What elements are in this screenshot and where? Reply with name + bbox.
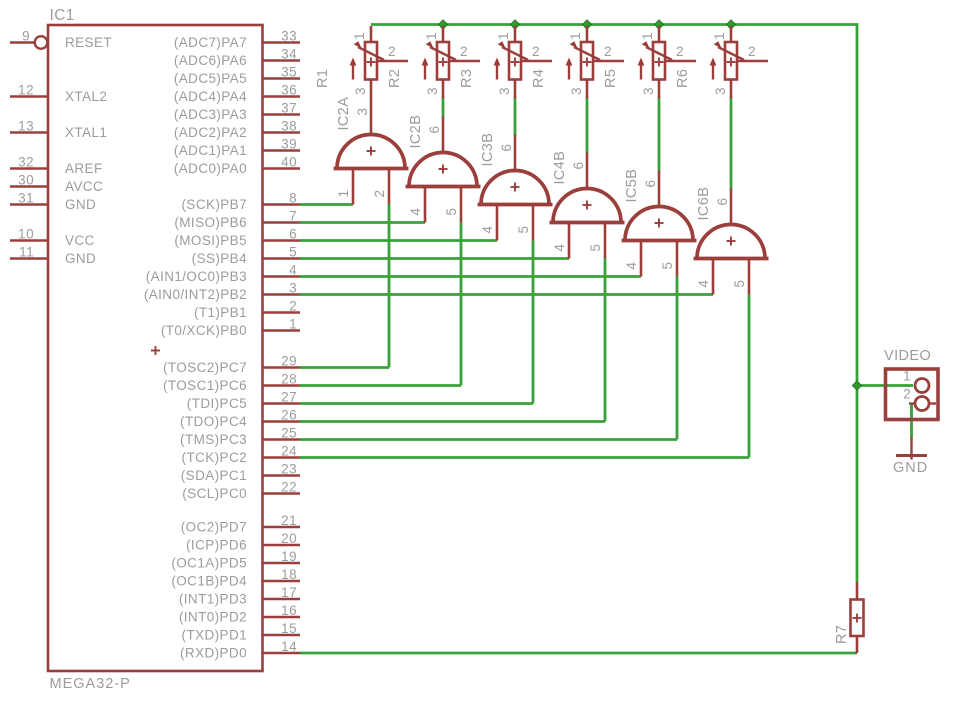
svg-text:5: 5	[289, 245, 297, 260]
IC1 pin 14 (RXD)PD0	[180, 639, 300, 661]
svg-text:(TDO)PC4: (TDO)PC4	[180, 414, 247, 429]
potentiometer R6	[675, 26, 768, 99]
IC1 pin 9 RESET	[10, 29, 112, 51]
svg-text:4: 4	[552, 244, 567, 252]
resistor R7	[834, 582, 864, 653]
svg-text:6: 6	[289, 227, 297, 242]
wire PB5 net	[300, 239, 497, 242]
wire R3 pin3 to IC gate output	[514, 98, 517, 136]
svg-text:(OC2)PD7: (OC2)PD7	[181, 520, 247, 535]
svg-text:AREF: AREF	[65, 161, 103, 176]
svg-text:2: 2	[676, 44, 684, 59]
svg-text:36: 36	[281, 83, 297, 98]
IC1 pin 35 (ADC5)PA5	[174, 65, 300, 87]
IC1 pin 6 (MOSI)PB5	[174, 227, 300, 249]
IC1 pin 26 (TDO)PC4	[180, 408, 300, 430]
wire right bus vertical	[856, 25, 859, 386]
IC1 pin 20 (ICP)PD6	[186, 531, 300, 553]
IC1 pin 37 (ADC3)PA3	[174, 101, 300, 123]
svg-text:35: 35	[281, 65, 297, 80]
IC1 pin 23 (SDA)PC1	[181, 462, 300, 484]
svg-text:3: 3	[425, 87, 440, 95]
svg-text:6: 6	[499, 144, 514, 152]
IC1 pin 3 (AIN0/INT2)PB2	[144, 281, 300, 303]
svg-text:3: 3	[353, 87, 368, 95]
svg-text:R4: R4	[531, 69, 547, 88]
potentiometer R4	[531, 26, 624, 99]
svg-text:5: 5	[660, 262, 675, 270]
svg-text:IC3B: IC3B	[480, 133, 496, 167]
svg-text:6: 6	[643, 180, 658, 188]
IC IC1 MEGA32-P body	[48, 7, 263, 692]
svg-text:(ICP)PD6: (ICP)PD6	[186, 538, 247, 553]
svg-text:(TXD)PD1: (TXD)PD1	[182, 628, 247, 643]
wire R6 pin3 to IC gate output	[730, 98, 733, 190]
svg-text:R3: R3	[459, 69, 475, 88]
IC1 pin 17 (INT1)PD3	[179, 585, 300, 607]
svg-text:GND: GND	[65, 197, 96, 212]
svg-text:AVCC: AVCC	[65, 179, 103, 194]
IC1 pin 34 (ADC6)PA6	[174, 47, 300, 69]
svg-text:17: 17	[281, 585, 297, 600]
wire top bus	[371, 23, 858, 26]
svg-text:3: 3	[497, 87, 512, 95]
svg-text:2: 2	[532, 44, 540, 59]
IC1 pin 15 (TXD)PD1	[182, 621, 300, 643]
svg-text:40: 40	[281, 155, 297, 170]
svg-text:(TDI)PC5: (TDI)PC5	[187, 396, 247, 411]
svg-text:12: 12	[18, 83, 34, 98]
svg-text:19: 19	[281, 549, 297, 564]
svg-text:(TOSC2)PC7: (TOSC2)PC7	[163, 360, 247, 375]
AND gate IC3B	[478, 133, 553, 241]
wire PB4 net	[300, 257, 569, 260]
svg-text:2: 2	[388, 44, 396, 59]
svg-text:1: 1	[568, 32, 583, 40]
svg-text:3: 3	[289, 281, 297, 296]
svg-text:27: 27	[281, 390, 297, 405]
wire PC7 net	[300, 205, 389, 368]
svg-text:5: 5	[444, 208, 459, 216]
svg-text:(ADC7)PA7: (ADC7)PA7	[174, 35, 247, 50]
potentiometer R5	[603, 26, 696, 99]
wire bus to VIDEO pin 1	[857, 384, 913, 387]
svg-text:5: 5	[732, 280, 747, 288]
IC1 pin 2 (T1)PB1	[194, 299, 300, 321]
svg-text:11: 11	[19, 245, 34, 260]
svg-text:R5: R5	[603, 69, 619, 88]
IC1 pin 31 GND	[10, 191, 96, 213]
svg-text:(OC1B)PD4: (OC1B)PD4	[171, 574, 247, 589]
svg-text:6: 6	[427, 126, 442, 134]
svg-text:IC5B: IC5B	[624, 169, 640, 203]
svg-text:(ADC2)PA2: (ADC2)PA2	[174, 125, 247, 140]
svg-text:39: 39	[281, 137, 297, 152]
AND gate IC6B	[694, 187, 769, 295]
svg-text:(T1)PB1: (T1)PB1	[194, 305, 247, 320]
svg-text:32: 32	[18, 155, 34, 170]
svg-text:15: 15	[281, 621, 297, 636]
IC1 pin 5 (SS)PB4	[192, 245, 300, 267]
svg-text:13: 13	[18, 119, 34, 134]
IC1 pin 28 (TOSC1)PC6	[163, 372, 300, 394]
svg-text:25: 25	[281, 426, 297, 441]
IC1 pin 39 (ADC1)PA1	[174, 137, 300, 159]
svg-text:18: 18	[281, 567, 297, 582]
svg-text:GND: GND	[65, 251, 96, 266]
svg-text:IC2B: IC2B	[408, 115, 424, 149]
svg-text:(SDA)PC1: (SDA)PC1	[181, 468, 247, 483]
svg-text:2: 2	[903, 387, 911, 402]
svg-text:R7: R7	[834, 625, 850, 644]
IC1 pin 16 (INT0)PD2	[179, 603, 300, 625]
wire PB3 net	[300, 275, 641, 278]
IC1 pin 32 AREF	[10, 155, 103, 177]
svg-text:4: 4	[408, 208, 423, 216]
svg-text:10: 10	[18, 227, 34, 242]
svg-text:23: 23	[281, 462, 297, 477]
svg-text:4: 4	[696, 280, 711, 288]
wire PC4 net	[300, 259, 605, 422]
svg-text:2: 2	[604, 44, 612, 59]
IC1 pin 12 XTAL2	[10, 83, 107, 105]
svg-text:20: 20	[281, 531, 297, 546]
svg-text:MEGA32-P: MEGA32-P	[50, 676, 131, 692]
svg-text:7: 7	[289, 209, 297, 224]
potentiometer R3	[459, 26, 552, 99]
wire R5 pin3 to IC gate output	[658, 98, 661, 172]
wire PD0 to R7	[300, 652, 857, 655]
svg-text:26: 26	[281, 408, 297, 423]
IC1 pin 27 (TDI)PC5	[187, 390, 300, 412]
svg-text:R2: R2	[387, 69, 403, 88]
svg-text:30: 30	[18, 173, 34, 188]
IC1 pin 10 VCC	[10, 227, 95, 249]
svg-text:(ADC6)PA6: (ADC6)PA6	[174, 53, 247, 68]
IC1 pin 7 (MISO)PB6	[174, 209, 300, 231]
svg-text:2: 2	[289, 299, 297, 314]
IC1 pin 11 GND	[10, 245, 96, 267]
svg-text:(SS)PB4: (SS)PB4	[192, 251, 247, 266]
svg-text:1: 1	[903, 369, 911, 384]
svg-text:37: 37	[281, 101, 297, 116]
junction	[438, 20, 447, 29]
AND gate IC2B	[406, 115, 481, 223]
svg-text:IC6B: IC6B	[696, 187, 712, 221]
svg-text:(INT1)PD3: (INT1)PD3	[179, 592, 247, 607]
wire right bus vertical lower	[856, 386, 859, 583]
svg-text:1: 1	[640, 32, 655, 40]
svg-text:5: 5	[516, 226, 531, 234]
svg-text:28: 28	[281, 372, 297, 387]
svg-text:9: 9	[22, 29, 30, 44]
svg-text:1: 1	[352, 32, 367, 40]
svg-text:4: 4	[624, 262, 639, 270]
wire R4 pin3 to IC gate output	[586, 98, 589, 154]
svg-text:(SCL)PC0: (SCL)PC0	[182, 486, 247, 501]
svg-text:3: 3	[713, 87, 728, 95]
svg-text:(T0/XCK)PB0: (T0/XCK)PB0	[161, 323, 247, 338]
svg-text:(TCK)PC2: (TCK)PC2	[182, 450, 247, 465]
IC1 pin 19 (OC1A)PD5	[171, 549, 300, 571]
IC1 pin 30 AVCC	[10, 173, 103, 195]
svg-text:6: 6	[715, 198, 730, 206]
svg-text:31: 31	[18, 191, 34, 206]
IC1 pin 36 (ADC4)PA4	[174, 83, 300, 105]
svg-text:(ADC4)PA4: (ADC4)PA4	[174, 89, 247, 104]
wire PC5 net	[300, 241, 533, 404]
svg-text:(TOSC1)PC6: (TOSC1)PC6	[163, 378, 247, 393]
svg-text:R6: R6	[675, 69, 691, 88]
junction	[510, 20, 519, 29]
junction	[852, 381, 861, 390]
wire PC6 net	[300, 223, 461, 386]
svg-text:(INT0)PD2: (INT0)PD2	[179, 610, 247, 625]
wire PB7 net	[300, 203, 353, 206]
junction	[582, 20, 591, 29]
wire PC3 net	[300, 277, 677, 440]
svg-text:(ADC0)PA0: (ADC0)PA0	[174, 161, 247, 176]
IC1 pin 21 (OC2)PD7	[181, 513, 300, 535]
svg-text:1: 1	[496, 32, 511, 40]
IC1 pin 22 (SCL)PC0	[182, 480, 300, 502]
svg-text:(ADC1)PA1: (ADC1)PA1	[174, 143, 247, 158]
svg-text:XTAL2: XTAL2	[65, 89, 107, 104]
svg-text:RESET: RESET	[65, 35, 112, 50]
AND gate IC2A	[334, 97, 409, 205]
AND gate IC4B	[550, 151, 625, 259]
wire PC2 net	[300, 295, 749, 458]
svg-text:4: 4	[480, 226, 495, 234]
svg-text:14: 14	[281, 639, 297, 654]
svg-text:IC2A: IC2A	[336, 97, 352, 131]
svg-text:1: 1	[289, 317, 297, 332]
wire R2 pin3 to IC gate output	[442, 98, 445, 118]
IC1 pin 8 (SCK)PB7	[182, 191, 300, 213]
svg-text:3: 3	[355, 108, 370, 116]
svg-text:(OC1A)PD5: (OC1A)PD5	[171, 556, 247, 571]
svg-text:(AIN1/OC0)PB3: (AIN1/OC0)PB3	[146, 269, 247, 284]
svg-text:16: 16	[281, 603, 297, 618]
IC1 pin 29 (TOSC2)PC7	[163, 354, 300, 376]
AND gate IC5B	[622, 169, 697, 277]
IC1 pin 38 (ADC2)PA2	[174, 119, 300, 141]
junction	[654, 20, 663, 29]
svg-text:(ADC3)PA3: (ADC3)PA3	[174, 107, 247, 122]
IC1 pin 33 (ADC7)PA7	[174, 29, 300, 51]
svg-text:21: 21	[281, 513, 297, 528]
svg-text:3: 3	[641, 87, 656, 95]
svg-text:1: 1	[336, 190, 351, 198]
svg-text:XTAL1: XTAL1	[65, 125, 107, 140]
junction	[726, 20, 735, 29]
svg-text:VCC: VCC	[65, 233, 95, 248]
svg-text:(MISO)PB6: (MISO)PB6	[174, 215, 247, 230]
IC1 pin 1 (T0/XCK)PB0	[161, 317, 300, 339]
svg-text:3: 3	[569, 87, 584, 95]
svg-text:(TMS)PC3: (TMS)PC3	[180, 432, 247, 447]
svg-text:2: 2	[748, 44, 756, 59]
svg-text:2: 2	[372, 190, 387, 198]
svg-text:5: 5	[588, 244, 603, 252]
svg-text:IC1: IC1	[50, 7, 75, 24]
potentiometer R1	[315, 26, 408, 99]
svg-text:34: 34	[281, 47, 297, 62]
IC1 pin 13 XTAL1	[10, 119, 107, 141]
IC1 pin 24 (TCK)PC2	[182, 444, 300, 466]
svg-text:6: 6	[571, 162, 586, 170]
svg-text:GND: GND	[893, 460, 928, 476]
IC1 pin 4 (AIN1/OC0)PB3	[146, 263, 300, 285]
svg-text:(RXD)PD0: (RXD)PD0	[180, 646, 247, 661]
ground GND	[893, 437, 928, 476]
IC1 pin 18 (OC1B)PD4	[171, 567, 300, 589]
svg-text:(AIN0/INT2)PB2: (AIN0/INT2)PB2	[144, 287, 247, 302]
IC1 pin 40 (ADC0)PA0	[174, 155, 300, 177]
wire PB6 net	[300, 221, 425, 224]
svg-text:2: 2	[460, 44, 468, 59]
svg-text:1: 1	[424, 32, 439, 40]
svg-text:IC4B: IC4B	[552, 151, 568, 185]
svg-text:4: 4	[289, 263, 297, 278]
svg-text:(ADC5)PA5: (ADC5)PA5	[174, 71, 247, 86]
svg-text:33: 33	[281, 29, 297, 44]
svg-text:38: 38	[281, 119, 297, 134]
svg-text:(MOSI)PB5: (MOSI)PB5	[174, 233, 247, 248]
potentiometer R2	[387, 26, 480, 99]
connector VIDEO	[884, 348, 938, 420]
svg-text:8: 8	[289, 191, 297, 206]
svg-text:29: 29	[281, 354, 297, 369]
IC1 pin 25 (TMS)PC3	[180, 426, 300, 448]
svg-text:1: 1	[712, 32, 727, 40]
svg-text:22: 22	[281, 480, 297, 495]
svg-text:VIDEO: VIDEO	[884, 348, 931, 364]
wire VIDEO pin 2 to GND	[910, 405, 913, 439]
wire PB2 net	[300, 293, 713, 296]
svg-text:24: 24	[281, 444, 297, 459]
svg-text:R1: R1	[315, 69, 331, 88]
svg-text:(SCK)PB7: (SCK)PB7	[182, 197, 247, 212]
